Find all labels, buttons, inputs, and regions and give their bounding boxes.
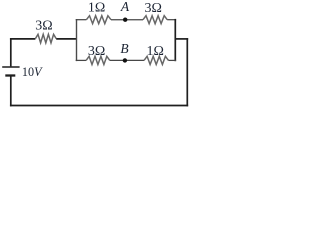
wire bottom xyxy=(10,105,188,107)
svg-text:3Ω: 3Ω xyxy=(35,18,52,33)
svg-text:A: A xyxy=(120,0,130,14)
battery V1 long plate (+) xyxy=(2,66,19,68)
wire main-right lead xyxy=(56,38,76,40)
circuit schematic: 10V battery, series 3-ohm resistor, parallel branches with nodes A and B xyxy=(0,0,213,114)
wire left-vertical-bottom xyxy=(10,76,12,106)
resistor R2 1ohm zigzag xyxy=(86,16,111,24)
wire bottom-branch lead2 xyxy=(110,59,144,61)
wire top-branch lead2 xyxy=(111,19,143,21)
svg-text:3Ω: 3Ω xyxy=(88,44,105,59)
wire left-vertical-top xyxy=(10,38,12,66)
wire top-branch lead1 xyxy=(76,19,87,21)
resistor R1 3ohm zigzag xyxy=(35,34,56,43)
wire bottom-branch lead3 xyxy=(169,59,177,61)
node A junction dot xyxy=(123,18,127,22)
node B junction dot xyxy=(123,58,127,62)
wire box-left-vertical xyxy=(76,19,78,61)
svg-text:10V: 10V xyxy=(22,65,43,79)
wire main-left lead xyxy=(10,38,35,40)
resistor R3 3ohm zigzag xyxy=(143,16,167,24)
svg-text:1Ω: 1Ω xyxy=(146,44,163,59)
svg-text:3Ω: 3Ω xyxy=(144,1,161,16)
battery V1 short plate (-) xyxy=(5,74,15,76)
svg-text:1Ω: 1Ω xyxy=(88,1,105,16)
wire mid-right xyxy=(175,38,189,40)
resistor R4 3ohm zigzag xyxy=(86,56,110,64)
wire top-branch lead3 xyxy=(167,19,176,21)
wire bottom-branch lead1 xyxy=(76,59,86,61)
svg-text:B: B xyxy=(120,41,128,56)
wire outer-right-vertical xyxy=(186,38,188,106)
resistor R5 1ohm zigzag xyxy=(144,56,169,64)
wire box-right-vertical xyxy=(174,19,176,61)
